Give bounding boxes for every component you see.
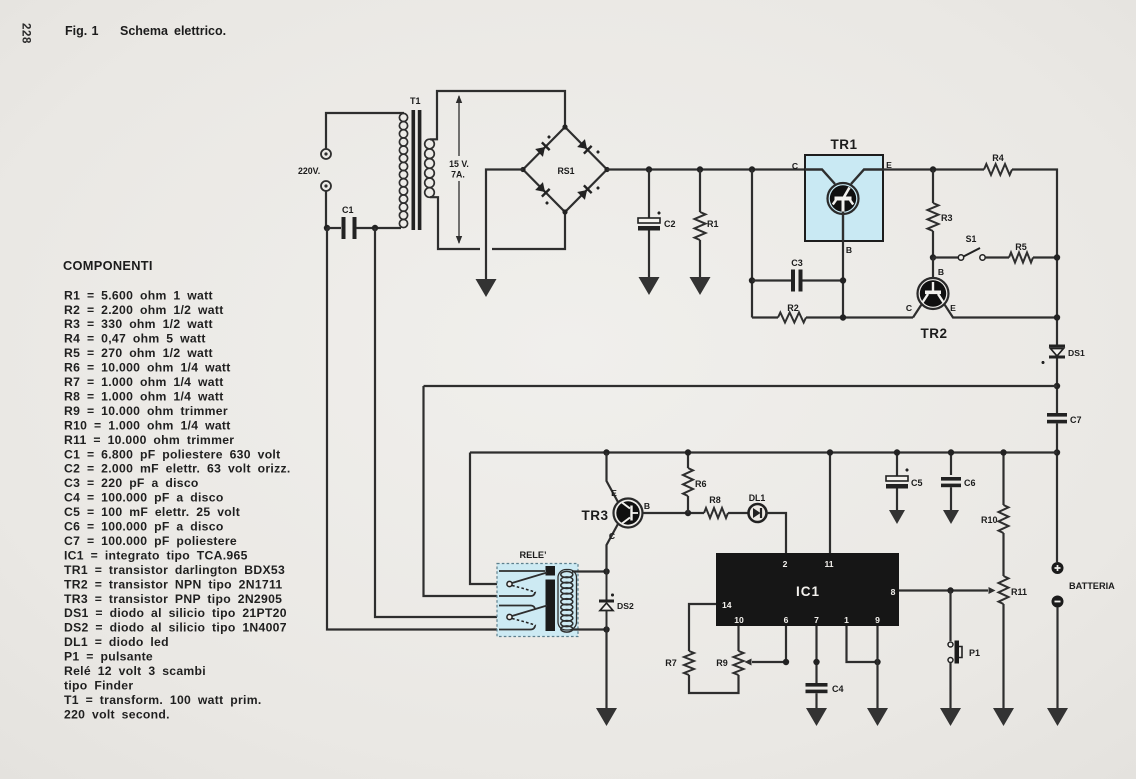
capacitor C4 (806, 683, 828, 687)
ground (R11) (993, 708, 1014, 726)
svg-text:R8: R8 (709, 495, 721, 505)
svg-text:TR1 = transistor darlington BD: TR1 = transistor darlington BDX53 (64, 563, 285, 577)
wire: pin 9 to ground (876, 626, 878, 708)
node riser/C3 (749, 277, 755, 283)
svg-text:C2: C2 (664, 219, 676, 229)
svg-text:C4 = 100.000 pF a disco: C4 = 100.000 pF a disco (64, 491, 224, 505)
svg-text:E: E (950, 303, 956, 313)
node supply/pin11 (827, 449, 833, 455)
svg-text:COMPONENTI: COMPONENTI (63, 258, 153, 273)
node supply/R10 (1000, 449, 1006, 455)
wire: pin 1 to pin 9 net (847, 626, 878, 662)
wire: pin 10 to R9 (737, 626, 739, 651)
svg-text:Relé 12 volt 3 scambi: Relé 12 volt 3 scambi (64, 664, 206, 678)
svg-text:TR3 = transistor PNP tipo 2N29: TR3 = transistor PNP tipo 2N2905 (64, 592, 282, 606)
svg-text:E: E (611, 488, 617, 498)
svg-text:DS1 = diodo al silicio tipo 21: DS1 = diodo al silicio tipo 21PT20 (64, 606, 287, 620)
bridge rectifier RS1 frame (523, 127, 607, 212)
diode DS1 (1049, 345, 1065, 348)
LED DL1 (749, 504, 767, 522)
svg-text:DS2: DS2 (617, 601, 634, 611)
node pin6/pin7 net (783, 659, 789, 665)
resistor R9 (734, 651, 744, 675)
wire: R4 to right bus corner (1012, 170, 1057, 346)
node right bus / y386 wire (1054, 383, 1060, 389)
capacitor C2 (648, 170, 650, 219)
relay core bar (546, 580, 556, 632)
terminal 220V top (321, 149, 331, 159)
svg-text:RS1: RS1 (557, 166, 574, 176)
wire: relay coil top to DS2 (572, 570, 607, 572)
capacitor C6 (950, 453, 952, 476)
node B/R2 (840, 314, 846, 320)
ground (C4) (806, 708, 827, 726)
svg-text:220V.: 220V. (298, 166, 320, 176)
svg-text:C6: C6 (964, 478, 976, 488)
svg-text:DL1 = diodo led: DL1 = diodo led (64, 635, 169, 649)
wire: C1 right to primary bottom (356, 227, 401, 229)
svg-text:T1 = transform. 100 watt prim.: T1 = transform. 100 watt prim. (64, 693, 262, 707)
wire: pin 11 to supply net (829, 453, 831, 554)
measure arrow 15V 7A (458, 96, 460, 156)
svg-text:R11 = 10.000 ohm trimmer: R11 = 10.000 ohm trimmer (64, 433, 234, 447)
svg-text:R3 = 330 ohm 1/2 watt: R3 = 330 ohm 1/2 watt (64, 317, 213, 331)
svg-text:R1: R1 (707, 219, 719, 229)
resistor R10 (1002, 453, 1004, 506)
TR2 base wire (932, 258, 934, 279)
svg-text:2: 2 (783, 559, 788, 569)
svg-text:IC1: IC1 (796, 584, 820, 599)
svg-text:7A.: 7A. (451, 170, 465, 180)
bridge diode upper-left (535, 142, 549, 156)
ground (C6) (943, 510, 959, 524)
svg-text:C3: C3 (791, 258, 803, 268)
svg-text:1: 1 (92, 24, 99, 38)
node pin7/wiper net (813, 659, 819, 665)
ground (C5) (889, 510, 905, 524)
capacitor C7 (1047, 413, 1067, 417)
transistor TR3 collector lead (607, 523, 619, 572)
transistor TR1 (darlington, highlighted box) (805, 155, 883, 241)
bridge diode lower-right (577, 185, 591, 199)
svg-text:DL1: DL1 (749, 493, 766, 503)
svg-text:R2: R2 (787, 303, 799, 313)
svg-text:B: B (938, 267, 944, 277)
svg-text:10: 10 (734, 615, 744, 625)
svg-text:TR2 = transistor NPN tipo 2N17: TR2 = transistor NPN tipo 2N1711 (64, 577, 282, 591)
resistor R5 (985, 256, 1009, 258)
svg-text:R11: R11 (1011, 587, 1027, 597)
svg-text:C4: C4 (832, 684, 844, 694)
ground (battery) (1047, 708, 1068, 726)
svg-text:R8 = 1.000 ohm 1/4 watt: R8 = 1.000 ohm 1/4 watt (64, 389, 224, 403)
wire: DS2 bottom to ground (605, 630, 607, 709)
IC IC1 (716, 553, 899, 626)
svg-text:C1 = 6.800 pF poliestere 630 v: C1 = 6.800 pF poliestere 630 volt (64, 447, 280, 461)
svg-text:15 V.: 15 V. (449, 159, 469, 169)
node supply/C5 (894, 449, 900, 455)
node: C1 right junction (372, 225, 378, 231)
svg-text:6: 6 (784, 615, 789, 625)
svg-text:T1: T1 (410, 96, 421, 106)
svg-text:228: 228 (20, 23, 32, 44)
svg-text:R4 = 0,47 ohm 5 watt: R4 = 0,47 ohm 5 watt (64, 332, 206, 346)
TR3 base wire to R8 (643, 512, 705, 514)
svg-text:7: 7 (814, 615, 819, 625)
svg-text:C2 = 2.000 mF elettr. 63 volt: C2 = 2.000 mF elettr. 63 volt orizz. (64, 462, 291, 476)
wire: pin 6 to R9 wiper arrow (752, 626, 786, 662)
svg-text:C5 = 100 mF elettr. 25 volt: C5 = 100 mF elettr. 25 volt (64, 505, 240, 519)
wire: DS1 to relay-contact line (1056, 359, 1058, 414)
svg-text:11: 11 (824, 559, 833, 569)
transistor TR2 (918, 278, 949, 309)
svg-text:tipo Finder: tipo Finder (64, 678, 133, 692)
transistor TR3 emitter lead (607, 453, 619, 504)
node R6/base wire (685, 510, 691, 516)
svg-text:C: C (792, 161, 798, 171)
relay armature bar (546, 566, 556, 576)
switch S1 (933, 256, 958, 258)
TR1 base lead (842, 212, 844, 242)
wire: pin 14 loop to R7 (689, 604, 716, 651)
wire: supply net y452 (470, 451, 1057, 453)
svg-text:C3 = 220 pF a disco: C3 = 220 pF a disco (64, 476, 199, 490)
terminal 220V bottom (321, 181, 331, 191)
wire: DL1 to IC1 pin 2 (766, 513, 787, 553)
relay middle contact hook (499, 592, 535, 596)
transformer T1 core (412, 110, 416, 230)
TR1 emitter lead (851, 170, 883, 185)
svg-text:Fig.: Fig. (65, 24, 87, 38)
svg-text:C1: C1 (342, 205, 354, 215)
svg-text:B: B (644, 501, 650, 511)
svg-text:C7: C7 (1070, 415, 1082, 425)
node on rail at R1 (697, 166, 703, 172)
svg-text:IC1 = integrato tipo TCA.965: IC1 = integrato tipo TCA.965 (64, 548, 248, 562)
ground (P1) (940, 708, 961, 726)
node rail/R3 (930, 166, 936, 172)
svg-text:R5 = 270 ohm 1/2 watt: R5 = 270 ohm 1/2 watt (64, 346, 213, 360)
wire: pin 7 down to C4 (815, 626, 817, 683)
svg-text:B: B (846, 245, 852, 255)
bridge diode upper-right (577, 139, 591, 153)
wire: vertical x375 (mains) to relay lower lever (375, 228, 506, 617)
svg-text:TR2: TR2 (920, 326, 947, 341)
bridge diode lower-left (535, 182, 549, 196)
wire: relay coil bottom to DS2 (572, 628, 607, 630)
svg-text:R9 = 10.000 ohm trimmer: R9 = 10.000 ohm trimmer (64, 404, 228, 418)
svg-text:DS2 = diodo al silicio tipo 1N: DS2 = diodo al silicio tipo 1N4007 (64, 621, 287, 635)
node pin1/pin9 (874, 659, 880, 665)
relay box (497, 564, 578, 637)
relay coil (558, 570, 577, 633)
svg-text:C: C (609, 531, 615, 541)
svg-text:R6 = 10.000 ohm 1/4 watt: R6 = 10.000 ohm 1/4 watt (64, 361, 231, 375)
node B/C3 (840, 277, 846, 283)
ground (pin 9) (867, 708, 888, 726)
wire: secondary top lead to bridge top (430, 91, 565, 139)
svg-text:8: 8 (891, 587, 896, 597)
TR1 collector lead (805, 170, 835, 185)
svg-text:1: 1 (844, 615, 849, 625)
capacitor C3 (752, 279, 791, 281)
wire: vertical x470 to relay top lever (470, 453, 506, 585)
wire: riser to C3 and R2 (751, 170, 753, 318)
ground (relay/DS2) (596, 708, 617, 726)
ground (C2) (639, 277, 660, 295)
svg-text:9: 9 (875, 615, 880, 625)
node on rail at C3/R2 riser (749, 166, 755, 172)
node R3/S1/TR2.B (930, 254, 936, 260)
svg-text:R7 = 1.000 ohm 1/4 watt: R7 = 1.000 ohm 1/4 watt (64, 375, 224, 389)
battery minus terminal (1052, 596, 1064, 608)
wire: rail TR1.E to R4 (883, 168, 984, 170)
svg-text:R9: R9 (716, 658, 728, 668)
svg-text:C5: C5 (911, 478, 923, 488)
svg-text:C6 = 100.000 pF a disco: C6 = 100.000 pF a disco (64, 520, 224, 534)
svg-text:DS1: DS1 (1068, 348, 1085, 358)
relay bottom contact hook (499, 626, 535, 630)
battery plus terminal (1052, 562, 1064, 574)
svg-text:RELE’: RELE’ (519, 550, 546, 560)
resistor R2 (752, 316, 778, 318)
transformer T1 secondary winding (425, 139, 435, 197)
ground (bridge) (476, 279, 497, 297)
wire: C7 to battery plus (1056, 423, 1058, 562)
svg-text:elettrico.: elettrico. (174, 24, 226, 38)
resistor R7 (684, 651, 694, 675)
svg-text:R1 = 5.600 ohm 1 watt: R1 = 5.600 ohm 1 watt (64, 288, 213, 302)
diode DS2 (606, 572, 608, 601)
svg-text:R10 = 1.000 ohm 1/4 watt: R10 = 1.000 ohm 1/4 watt (64, 418, 231, 432)
wire: bridge minus to ground (486, 170, 523, 280)
svg-text:P1 = pulsante: P1 = pulsante (64, 650, 153, 664)
capacitor C5 (896, 453, 898, 477)
svg-text:C7 = 100.000 pF poliestere: C7 = 100.000 pF poliestere (64, 534, 237, 548)
node: C1 left junction (324, 225, 330, 231)
TR2 emitter lead (945, 305, 1058, 318)
wire: vertical x327 (mains) to relay bottom contact (327, 228, 499, 630)
svg-text:P1: P1 (969, 648, 980, 658)
svg-text:R6: R6 (695, 479, 707, 489)
resistor R4 (984, 164, 1012, 175)
svg-text:R7: R7 (665, 658, 677, 668)
wire: vertical x423 to relay middle contact (424, 386, 500, 596)
wire: DC+ rail from bridge to TR1 (607, 168, 822, 170)
wire: TR1 base down to C3/R2 (842, 241, 844, 318)
svg-text:C: C (906, 303, 912, 313)
node supply/R6 (685, 449, 691, 455)
node supply/C6 (948, 449, 954, 455)
svg-text:BATTERIA: BATTERIA (1069, 581, 1115, 591)
wire: relay contact net y386 (424, 385, 1058, 387)
node right bus / R5 (1054, 254, 1060, 260)
resistor R11 (trimmer) (999, 576, 1009, 604)
node supply/TR3.E (603, 449, 609, 455)
relay top contact bar (499, 570, 545, 572)
resistor R3 (932, 170, 934, 204)
svg-text:R10: R10 (981, 515, 998, 525)
capacitor C1 (327, 227, 341, 229)
resistor R8 (704, 508, 728, 518)
resistor R6 (687, 453, 689, 469)
svg-text:R2 = 2.200 ohm 1/2 watt: R2 = 2.200 ohm 1/2 watt (64, 303, 224, 317)
node coil-bottom/ground (603, 626, 609, 632)
transformer T1 primary winding (399, 113, 407, 227)
svg-text:S1: S1 (966, 234, 977, 244)
svg-text:Schema: Schema (120, 24, 169, 38)
svg-text:TR1: TR1 (830, 137, 857, 152)
wire: battery minus to ground (1056, 607, 1058, 708)
TR2 collector lead (913, 305, 922, 318)
relay lever 2 (507, 614, 512, 619)
wire: 220V top terminal to transformer primary top (326, 113, 404, 149)
node coil-top/TR3.C (603, 568, 609, 574)
svg-text:R4: R4 (992, 153, 1004, 163)
node right bus / y452 wire (1054, 449, 1060, 455)
svg-text:TR3: TR3 (581, 508, 608, 523)
resistor R1 (699, 170, 701, 213)
wire: pin 8 to R11 wiper arrow (899, 589, 988, 591)
svg-text:220 volt second.: 220 volt second. (64, 707, 170, 721)
pushbutton P1 (949, 591, 951, 642)
svg-text:14: 14 (722, 600, 732, 610)
node pin8/P1 (947, 587, 953, 593)
transistor TR3 (614, 499, 643, 528)
node on rail at C2 (646, 166, 652, 172)
wire: secondary bottom lead to bridge bottom (430, 197, 480, 249)
TR1 symbol circle (828, 183, 859, 214)
svg-text:R5: R5 (1015, 242, 1027, 252)
svg-text:R3: R3 (941, 213, 953, 223)
wire: 220V bottom terminal down to C1 junction (325, 191, 327, 228)
node right bus / TR2.E (1054, 314, 1060, 320)
relay lever 1 (507, 581, 512, 586)
ground (R1) (690, 277, 711, 295)
relay contact hook 3 (499, 606, 535, 610)
components list (64, 288, 291, 721)
